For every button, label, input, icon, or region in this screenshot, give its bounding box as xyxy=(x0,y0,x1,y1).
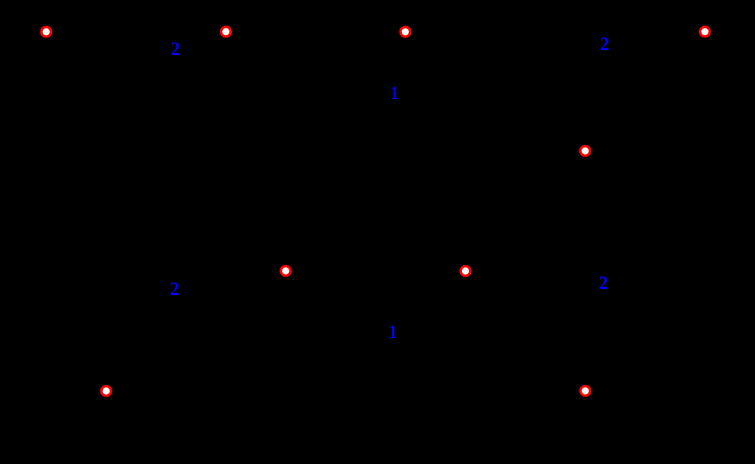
svg-text:1: 1 xyxy=(389,322,397,343)
svg-text:2: 2 xyxy=(171,39,180,60)
svg-text:1: 1 xyxy=(391,83,399,104)
svg-text:2: 2 xyxy=(170,279,179,300)
svg-text:2: 2 xyxy=(599,273,608,294)
svg-text:2: 2 xyxy=(600,34,609,55)
